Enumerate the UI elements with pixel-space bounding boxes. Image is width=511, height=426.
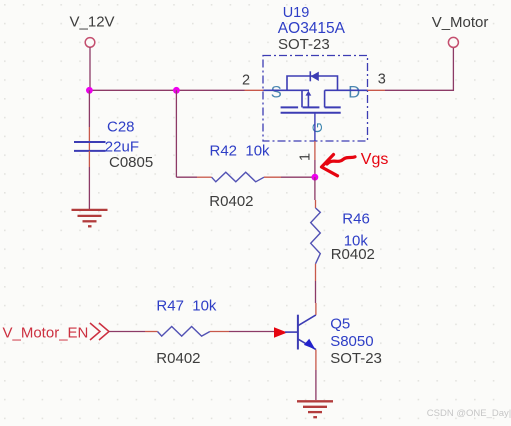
wire C28 to ground	[88, 167, 90, 209]
svg-text:S8050: S8050	[330, 333, 373, 350]
svg-text:R0402: R0402	[209, 193, 253, 210]
node junction R42 top	[173, 87, 180, 94]
transistor U19 gate lead	[314, 113, 316, 141]
resistor R47 pin right	[210, 331, 229, 333]
resistor R47	[158, 327, 210, 337]
svg-text:R47 10k: R47 10k	[156, 298, 217, 315]
ground Q5	[297, 401, 333, 417]
wire pin1 to junction	[314, 160, 316, 177]
svg-text:V_Motor_EN: V_Motor_EN	[3, 324, 89, 341]
svg-text:V_Motor: V_Motor	[432, 14, 489, 31]
wire R42 right	[281, 176, 315, 178]
transistor Q5 emitter arrow	[304, 339, 315, 350]
emitter pin Q5	[315, 350, 317, 371]
wire emitter to ground	[315, 370, 317, 400]
svg-text:R46: R46	[342, 210, 370, 227]
svg-text:R0402: R0402	[156, 350, 200, 367]
capacitor C28 pin top	[88, 127, 90, 150]
svg-text:U19: U19	[283, 5, 310, 21]
resistor R42 pin right	[264, 176, 281, 178]
svg-text:D: D	[348, 83, 360, 101]
resistor R46	[311, 208, 321, 264]
wire V_Motor_EN to R47	[109, 331, 145, 333]
svg-text:C0805: C0805	[109, 154, 153, 171]
port V_12V	[70, 14, 115, 48]
capacitor C28	[74, 142, 106, 151]
capacitor C28 pin bottom	[88, 151, 90, 167]
wire junction down to R42	[175, 90, 177, 177]
resistor R46 pin top	[315, 200, 317, 208]
port V_Motor	[432, 14, 489, 47]
pin 3 lead	[368, 89, 386, 91]
annotation Vgs arrow	[322, 155, 356, 176]
pin 1 lead	[314, 141, 316, 160]
port chevrons	[90, 323, 109, 340]
diode body (U19)	[287, 71, 338, 90]
node junction Vgs	[312, 174, 319, 181]
svg-text:G: G	[310, 122, 325, 133]
transistor Q5	[285, 315, 316, 350]
resistor R42 pin left	[197, 176, 212, 178]
wire junction to R46	[314, 177, 316, 200]
diode triangle (U19)	[311, 72, 319, 81]
transistor U19 MOSFET body	[264, 90, 368, 112]
svg-text:SOT-23: SOT-23	[330, 350, 382, 367]
node junction V_12V	[86, 87, 93, 94]
svg-text:CSDN @ONE_Day|: CSDN @ONE_Day|	[427, 408, 511, 419]
svg-text:C28: C28	[107, 119, 135, 136]
resistor R42	[212, 172, 264, 182]
svg-text:Vgs: Vgs	[361, 151, 389, 168]
svg-text:3: 3	[378, 72, 386, 88]
svg-text:SOT-23: SOT-23	[278, 36, 330, 53]
wire R47 to Q5	[229, 331, 276, 333]
wire R46 to Q5	[315, 281, 317, 303]
svg-text:R0402: R0402	[331, 246, 375, 263]
svg-text:V_12V: V_12V	[70, 14, 115, 31]
transistor U19 arrow	[306, 91, 312, 96]
resistor R47 pin left	[145, 331, 158, 333]
op-amp U19 dashed box	[263, 56, 368, 142]
collector pin Q5	[315, 303, 317, 315]
wire to V_Motor	[385, 47, 453, 90]
pin 2 lead	[245, 89, 264, 91]
resistor R46 pin bottom	[315, 264, 317, 281]
svg-text:R42 10k: R42 10k	[210, 142, 271, 159]
svg-text:Q5: Q5	[330, 315, 350, 332]
wire C28 top	[88, 90, 90, 127]
svg-text:1: 1	[297, 153, 313, 161]
svg-text:S: S	[271, 83, 282, 101]
ground C28	[72, 210, 108, 226]
wire V_12V down	[89, 47, 91, 90]
svg-text:AO3415A: AO3415A	[278, 20, 346, 37]
wire top horizontal	[89, 89, 244, 91]
svg-text:2: 2	[242, 72, 250, 88]
wire R42 left	[176, 176, 197, 178]
annotation arrow at Q5 base	[274, 327, 287, 338]
